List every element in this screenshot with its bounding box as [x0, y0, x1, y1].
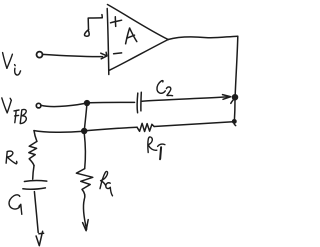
- small hook below output dot: [231, 98, 235, 104]
- resistor R: [29, 141, 37, 165]
- ground arrow C1: [36, 231, 44, 245]
- op-amp plus sign: [111, 17, 122, 27]
- wire lower node to Rf: [87, 127, 137, 130]
- right vertical wire: [235, 36, 238, 95]
- arrowhead on C2 wire: [223, 95, 231, 100]
- label R: [6, 151, 17, 164]
- ground arrow at + input: [84, 15, 102, 37]
- VFB terminal: [36, 103, 41, 108]
- wire Rf to right: [154, 122, 233, 127]
- vertical wire to Rg: [84, 134, 85, 169]
- op-amp minus sign: [114, 52, 122, 55]
- label Vi: [3, 53, 21, 75]
- wire node to C2: [90, 101, 135, 103]
- arrow/junction at Rf wire: [233, 120, 236, 123]
- wire C2 to output node: [142, 97, 228, 101]
- Vi terminal: [37, 52, 43, 58]
- label Rf: [148, 137, 165, 159]
- label C2: [157, 81, 173, 96]
- label Rg: [100, 171, 113, 195]
- wire C1 down: [34, 192, 38, 233]
- wire Rg to ground arrow: [83, 200, 86, 230]
- resistor Rg: [76, 169, 92, 200]
- resistor Rf: [137, 123, 154, 131]
- node dot at output junction: [233, 95, 238, 100]
- vertical wire between nodes: [85, 105, 87, 128]
- wire corner down to R: [34, 131, 37, 142]
- VFB wire to node: [41, 104, 84, 107]
- ground arrow Rg: [83, 220, 89, 231]
- output wire from op-amp: [168, 36, 237, 39]
- label VFB: [2, 98, 27, 124]
- label C1: [9, 195, 22, 214]
- op-amp U1: [107, 5, 168, 75]
- node dot at lower junction: [82, 129, 87, 134]
- capacitor C2: [137, 92, 141, 112]
- op-amp gain label A: [126, 28, 137, 44]
- node dot at VFB/C2 junction: [85, 101, 90, 106]
- Vi wire arrowhead: [101, 52, 107, 59]
- Vi wire to - input: [43, 54, 103, 56]
- wire corner to lower node: [34, 131, 82, 133]
- capacitor C1: [23, 180, 47, 189]
- wire R to C1: [33, 166, 34, 180]
